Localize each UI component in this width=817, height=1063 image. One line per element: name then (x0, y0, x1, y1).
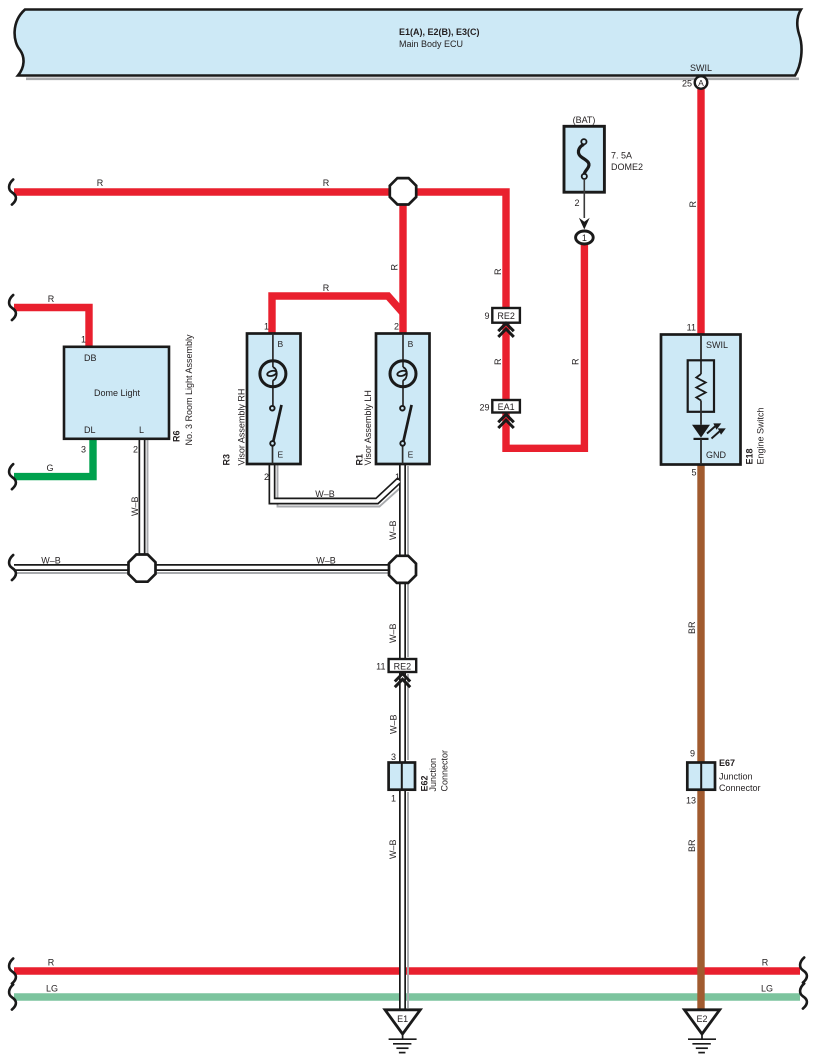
svg-text:1: 1 (391, 794, 396, 804)
svg-text:11: 11 (687, 322, 696, 332)
svg-text:R: R (493, 268, 503, 275)
svg-text:E: E (278, 449, 284, 459)
svg-text:W–B: W–B (388, 520, 398, 540)
svg-text:B: B (278, 339, 284, 349)
svg-text:2: 2 (394, 322, 399, 332)
svg-text:3: 3 (81, 444, 86, 454)
svg-text:LG: LG (761, 984, 773, 994)
svg-text:DB: DB (84, 353, 97, 363)
svg-text:R: R (323, 283, 330, 293)
svg-text:Engine Switch: Engine Switch (756, 407, 766, 464)
svg-text:2: 2 (264, 472, 269, 482)
svg-text:E67: E67 (719, 758, 735, 768)
svg-text:9: 9 (484, 311, 489, 321)
svg-text:E2: E2 (696, 1014, 707, 1024)
svg-text:W–B: W–B (388, 839, 398, 859)
svg-text:BR: BR (687, 621, 697, 634)
svg-text:DL: DL (84, 425, 96, 435)
svg-text:W–B: W–B (315, 489, 335, 499)
svg-text:LG: LG (46, 984, 58, 994)
svg-text:R: R (48, 958, 55, 968)
svg-text:Dome Light: Dome Light (94, 388, 141, 398)
svg-text:R: R (48, 294, 55, 304)
svg-text:1: 1 (395, 472, 400, 482)
svg-text:W–B: W–B (388, 623, 398, 643)
svg-text:(BAT): (BAT) (573, 115, 596, 125)
svg-text:RE2: RE2 (394, 661, 412, 671)
svg-text:BR: BR (687, 839, 697, 852)
svg-text:E1: E1 (397, 1014, 408, 1024)
svg-text:G: G (46, 463, 53, 473)
svg-text:A: A (698, 78, 704, 88)
svg-text:Visor Assembly LH: Visor Assembly LH (363, 390, 373, 465)
svg-text:13: 13 (686, 796, 696, 806)
svg-text:R3: R3 (222, 454, 232, 466)
svg-text:Connector: Connector (719, 783, 761, 793)
svg-text:GND: GND (706, 450, 727, 460)
svg-text:W–B: W–B (316, 556, 336, 566)
svg-text:1: 1 (264, 322, 269, 332)
svg-text:E18: E18 (745, 448, 755, 464)
svg-text:E1(A), E2(B), E3(C): E1(A), E2(B), E3(C) (399, 27, 480, 37)
svg-text:11: 11 (376, 662, 385, 672)
svg-text:7. 5A: 7. 5A (611, 150, 632, 160)
svg-text:RE2: RE2 (497, 311, 515, 321)
svg-text:Connector: Connector (440, 750, 450, 792)
svg-text:W–B: W–B (41, 556, 61, 566)
svg-text:5: 5 (691, 468, 696, 478)
svg-text:2: 2 (574, 198, 579, 208)
svg-text:No. 3 Room Light Assembly: No. 3 Room Light Assembly (184, 334, 194, 446)
svg-text:R: R (97, 178, 104, 188)
svg-text:R: R (323, 178, 330, 188)
svg-text:Junction: Junction (719, 772, 753, 782)
svg-text:L: L (139, 425, 144, 435)
svg-text:29: 29 (479, 403, 489, 413)
svg-text:3: 3 (391, 752, 396, 762)
svg-text:SWIL: SWIL (706, 340, 728, 350)
svg-text:1: 1 (582, 233, 587, 243)
svg-text:Junction: Junction (428, 758, 438, 792)
svg-text:SWIL: SWIL (690, 63, 712, 73)
svg-text:R6: R6 (172, 430, 182, 442)
svg-text:2: 2 (133, 444, 138, 454)
svg-text:W–B: W–B (130, 496, 140, 516)
svg-text:9: 9 (690, 749, 695, 759)
svg-text:1: 1 (81, 335, 86, 345)
svg-text:DOME2: DOME2 (611, 162, 643, 172)
svg-text:R: R (390, 264, 400, 271)
svg-text:Visor Assembly RH: Visor Assembly RH (237, 389, 247, 466)
svg-text:R: R (493, 358, 503, 365)
svg-text:R: R (762, 958, 769, 968)
svg-text:W–B: W–B (389, 714, 399, 734)
svg-text:Main Body ECU: Main Body ECU (399, 39, 463, 49)
svg-text:B: B (408, 339, 414, 349)
svg-text:25: 25 (682, 79, 692, 89)
svg-text:R: R (571, 358, 581, 365)
svg-text:E: E (408, 449, 414, 459)
svg-text:EA1: EA1 (498, 402, 515, 412)
svg-text:R: R (688, 201, 698, 208)
